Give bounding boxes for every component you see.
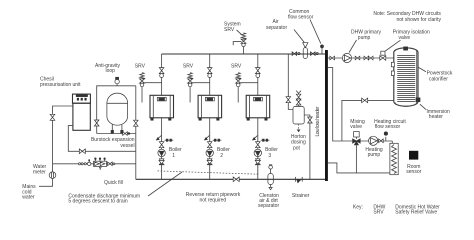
safety relief valve SRV2 [188,73,193,87]
svg-text:pump: pump [358,35,371,41]
svg-text:not shown for clarity: not shown for clarity [397,17,442,23]
radiator [390,143,398,174]
svg-text:loop: loop [106,68,116,74]
svg-text:3: 3 [268,153,271,159]
wire: heating return [328,163,390,173]
wire: cold feed main vertical [135,86,137,180]
double check valve assembly [94,161,107,166]
svg-text:2: 2 [220,153,223,159]
wire: dosing pot outlet [304,115,310,179]
union on return [261,139,270,141]
coil stubs [391,62,394,67]
valve on dosing feed [286,97,291,103]
svg-text:pressurisation unit: pressurisation unit [40,82,81,88]
valve on vessel line [123,132,128,136]
svg-text:Quick fill: Quick fill [104,180,123,186]
svg-text:SRV: SRV [231,64,242,70]
svg-text:not required: not required [200,197,227,203]
wire: return header [136,178,325,180]
svg-text:Key:: Key: [353,205,363,211]
drain cock [157,135,161,139]
wire: mains cold water [39,179,53,187]
wire: reverse return / condensate pipework (dashed) [158,171,258,174]
wire: unit inlet pipe [53,106,73,164]
svg-text:Safety Relief Valve: Safety Relief Valve [395,209,437,215]
wire: system SRV tee [243,47,245,54]
drain cock [253,135,257,139]
safety relief valve SRV1 [140,73,145,87]
boiler 1 pump [158,149,165,156]
valve on return 1 [159,142,164,148]
svg-text:SRV: SRV [183,64,194,70]
heating circuit flow sensor [385,137,387,141]
valve on riser 3 [255,68,260,74]
wire: unit outlet to system [68,126,136,152]
check valve 2 [207,160,212,164]
wire: DHW primary flow [328,57,394,59]
svg-text:Boiler: Boiler [217,147,230,153]
svg-text:SRV: SRV [135,64,146,70]
svg-text:Note: Secondary DHW circuits: Note: Secondary DHW circuits [373,11,441,17]
svg-text:SRV: SRV [373,209,384,215]
boiler 3 pump [254,149,261,156]
wire: boiler 3 return drop [257,118,259,180]
svg-text:pump: pump [368,152,381,158]
valve on loop left leg [94,120,99,126]
low loss header [325,50,328,181]
safety relief valve SRV3 [236,73,241,87]
wire: boiler 1 flow riser [161,54,163,95]
wire: mixing valve bottom port [355,145,357,173]
water meter [52,164,54,172]
valve [330,56,335,60]
valves after pump [355,56,360,60]
automatic air vent on loop [115,79,119,83]
svg-text:1: 1 [172,153,175,159]
Clenston air and dirt separator [269,165,273,169]
Powerstock calorifier shell [394,48,418,106]
heating pump [369,136,378,145]
valve after heating pump [379,139,384,143]
wire: anti-gravity loop [97,86,136,134]
valve + union right of air separator [311,52,316,56]
valve on unit inlet [50,114,55,120]
svg-text:Boiler: Boiler [169,147,182,153]
valve on unit outlet [79,149,85,154]
wire: vessel bottom line [97,133,136,135]
svg-text:water: water [22,195,35,201]
svg-text:vessel: vessel [120,143,134,149]
valve on riser 1 [159,68,164,74]
calorifier top boss [404,47,408,50]
immersion heater [416,98,420,102]
valve below pump 1 [159,159,164,165]
fittings on quick fill [78,163,80,165]
svg-text:meter: meter [33,169,46,175]
valve on return header [233,177,239,182]
valve on main vertical [134,120,139,126]
valve on riser 2 [207,68,212,74]
pressurisation unit cabinet [73,94,91,103]
check valve 3 [255,160,260,164]
svg-text:SRV: SRV [224,27,235,33]
vessel legs [111,124,113,133]
mixing valve [353,139,361,145]
valve on primary return [362,98,368,103]
svg-text:Low loss header: Low loss header [315,106,321,136]
svg-text:sensor: sensor [406,169,421,175]
valve below pump 3 [255,159,260,165]
wire: boiler 1 return drop [161,118,163,180]
svg-text:flow sensor: flow sensor [375,124,401,130]
boiler 2 pump [206,149,213,156]
svg-text:5 degrees descent to drain: 5 degrees descent to drain [68,198,127,204]
wire: boiler 2 flow riser [209,54,211,95]
valve after assembly [108,162,113,166]
check valve 1 [159,160,164,164]
room sensor [409,151,418,160]
calorifier coil [397,55,415,101]
drain cock [205,135,209,139]
leader line condensate [148,172,182,196]
wire: dosing pot feed [288,54,293,110]
wire: quick fill line [53,163,136,165]
DHW primary pump [342,53,351,62]
valve on return 2 [207,142,212,148]
expansion vessel [107,93,128,125]
wire: boiler 3 flow riser [257,54,259,95]
boiler 3 body [246,95,270,118]
primary isolation valve [380,56,386,61]
svg-text:Strainer: Strainer [292,193,310,199]
valve on return 3 [255,142,260,148]
union on return [165,139,174,141]
boiler 1 body [150,95,174,118]
svg-text:valve: valve [350,124,362,130]
wire: to heating pump [360,140,392,142]
svg-text:pot: pot [293,145,301,151]
wire: DHW primary return [342,100,394,141]
svg-text:heater: heater [429,114,444,120]
svg-text:calorifier: calorifier [429,76,448,82]
dosing pot drain [298,124,300,130]
svg-text:separator: separator [258,203,279,209]
valves left of air separator [292,52,297,56]
common flow sensor [321,45,324,48]
union on return [213,139,222,141]
wire: boiler 2 return drop [209,118,211,180]
valve below pump 2 [207,159,212,165]
svg-text:Boiler: Boiler [265,147,278,153]
wire: heating flow from header [328,68,353,141]
valve on dosing outlet [308,117,313,123]
strainer [294,177,296,182]
air separator [303,43,308,48]
system safety relief valve [241,33,246,47]
gauges on cabinet [76,95,87,97]
wire: into radiator [391,141,393,143]
boiler 2 body [198,95,222,118]
wire: system SRV discharge [233,42,241,46]
svg-text:separator: separator [266,25,287,31]
wire: flow header [162,53,325,55]
dosing pot funnel [296,91,301,94]
Horton dosing pot [293,107,304,125]
